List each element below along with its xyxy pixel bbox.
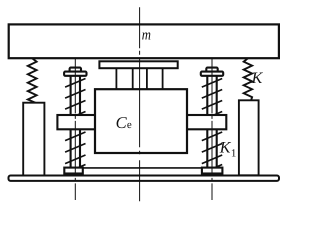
left support pillar bbox=[23, 103, 44, 176]
mass block m bbox=[9, 24, 279, 58]
bolt-spring K1-right nut arm bbox=[187, 115, 226, 129]
bolt-spring K1-right helix coils bbox=[202, 79, 222, 174]
svg-text:1: 1 bbox=[231, 147, 237, 159]
damper top plate bbox=[99, 61, 177, 68]
spring K right bbox=[244, 58, 252, 100]
bolt-spring K1-left foot bbox=[64, 168, 83, 174]
base bar between bolt feet bbox=[83, 167, 202, 169]
bolt-spring K1-right flange washer bbox=[201, 72, 223, 76]
bolt-spring K1-right shaft bbox=[207, 76, 216, 168]
bolt-spring K1-left shaft bbox=[71, 76, 80, 168]
svg-text:C: C bbox=[116, 113, 128, 132]
spring K left bbox=[28, 58, 37, 102]
bolt-spring K1-left nut arm bbox=[57, 115, 96, 129]
right support pillar bbox=[239, 100, 259, 175]
bolt-spring K1-left flange washer bbox=[64, 72, 86, 76]
right bolt centerline bbox=[211, 58, 213, 200]
svg-text:K: K bbox=[251, 70, 264, 87]
main centerline bbox=[139, 7, 141, 203]
bolt-spring K1-left cap nut bbox=[70, 68, 81, 72]
bolt-spring K1-right cap nut bbox=[206, 68, 217, 72]
base plate bbox=[9, 176, 280, 181]
bolt-spring K1-left helix coils bbox=[65, 79, 85, 174]
damper neck posts bbox=[116, 68, 162, 89]
svg-text:K: K bbox=[219, 140, 232, 157]
svg-text:m: m bbox=[142, 28, 151, 44]
svg-text:e: e bbox=[127, 119, 132, 131]
damper body Ce bbox=[95, 89, 187, 153]
left bolt centerline bbox=[74, 58, 76, 200]
bolt-spring K1-right foot bbox=[202, 168, 223, 174]
